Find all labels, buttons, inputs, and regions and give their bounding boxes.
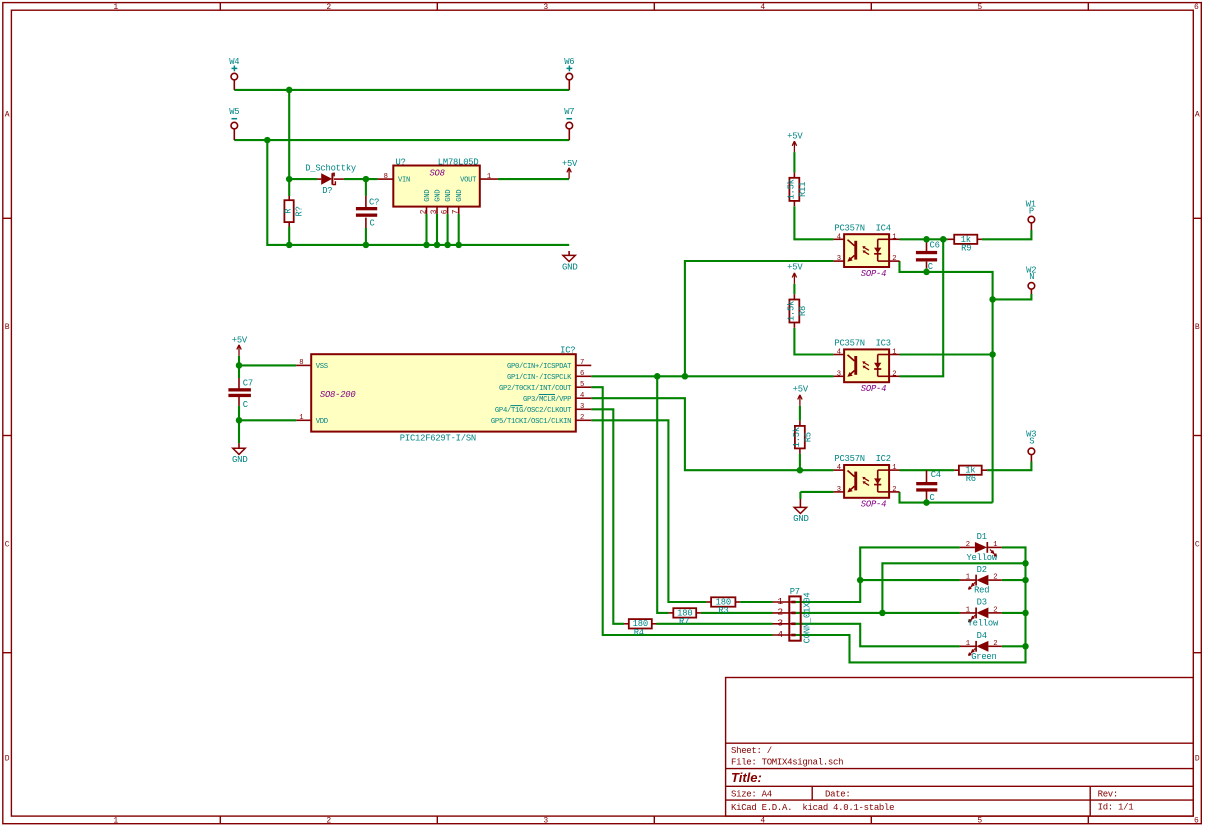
svg-text:D?: D? (322, 186, 332, 196)
svg-text:GND: GND (793, 514, 809, 524)
svg-text:5: 5 (580, 381, 584, 389)
svg-text:1: 1 (892, 233, 896, 241)
svg-text:R9: R9 (961, 243, 971, 253)
svg-text:3: 3 (837, 255, 841, 263)
svg-text:GP3/MCLR/VPP: GP3/MCLR/VPP (523, 396, 571, 404)
svg-text:GP1/CIN-/ICSPCLK: GP1/CIN-/ICSPCLK (507, 374, 572, 382)
svg-text:1: 1 (892, 464, 896, 472)
svg-text:GP4/T1G/OSC2/CLKOUT: GP4/T1G/OSC2/CLKOUT (495, 407, 572, 415)
svg-text:GND: GND (424, 190, 432, 202)
svg-text:Sheet: /: Sheet: / (731, 746, 772, 756)
svg-text:5: 5 (977, 3, 982, 12)
svg-text:1: 1 (299, 414, 303, 422)
svg-text:6: 6 (580, 370, 584, 378)
svg-text:2: 2 (777, 607, 783, 618)
svg-text:SOP-4: SOP-4 (861, 269, 886, 279)
svg-text:+5V: +5V (793, 385, 809, 395)
svg-text:PC357N: PC357N (834, 454, 864, 464)
svg-text:KiCad E.D.A. kicad 4.0.1-stab: KiCad E.D.A. kicad 4.0.1-stable (731, 803, 894, 813)
svg-text:6: 6 (441, 209, 449, 214)
svg-text:PIC12F629T-I/SN: PIC12F629T-I/SN (400, 434, 476, 444)
svg-text:2: 2 (326, 817, 331, 826)
svg-text:IC?: IC? (560, 345, 575, 355)
svg-text:6: 6 (1194, 817, 1199, 826)
svg-text:W6: W6 (564, 57, 574, 67)
svg-text:2: 2 (966, 541, 970, 549)
svg-text:R3: R3 (718, 606, 728, 616)
svg-text:Rev:: Rev: (1098, 790, 1118, 800)
svg-text:GND: GND (562, 263, 578, 273)
svg-text:SO8-200: SO8-200 (320, 390, 356, 400)
svg-text:1.5k: 1.5k (786, 179, 796, 199)
svg-text:3: 3 (837, 486, 841, 494)
svg-text:Size: A4: Size: A4 (731, 790, 772, 800)
svg-text:C: C (1195, 540, 1200, 549)
svg-text:2: 2 (892, 486, 896, 494)
svg-text:GND: GND (434, 190, 442, 202)
svg-text:D: D (5, 754, 10, 763)
svg-text:GND: GND (445, 190, 453, 202)
svg-text:Yellow: Yellow (968, 619, 999, 629)
svg-text:4: 4 (837, 233, 841, 241)
svg-text:W5: W5 (229, 107, 239, 117)
svg-text:VIN: VIN (398, 176, 410, 184)
svg-text:P: P (1029, 207, 1034, 217)
svg-text:C7: C7 (243, 379, 253, 389)
svg-text:File: TOMIX4signal.sch: File: TOMIX4signal.sch (731, 758, 843, 768)
svg-text:1: 1 (487, 173, 491, 181)
svg-text:8: 8 (384, 173, 388, 181)
svg-text:1: 1 (892, 349, 896, 357)
svg-text:3: 3 (837, 370, 841, 378)
svg-text:1: 1 (966, 640, 970, 648)
svg-text:D2: D2 (977, 565, 987, 575)
svg-text:R11: R11 (798, 182, 808, 197)
svg-text:3: 3 (580, 403, 584, 411)
svg-text:PC357N: PC357N (834, 339, 864, 349)
svg-text:2: 2 (580, 414, 584, 422)
svg-text:1.5k: 1.5k (792, 427, 802, 447)
svg-text:D4: D4 (977, 631, 987, 641)
svg-text:R5: R5 (804, 432, 814, 442)
svg-text:C6: C6 (930, 240, 940, 250)
svg-text:4: 4 (837, 464, 841, 472)
svg-text:+5V: +5V (562, 159, 578, 169)
svg-text:1: 1 (113, 817, 118, 826)
svg-text:D: D (1195, 754, 1200, 763)
svg-text:1: 1 (993, 541, 997, 549)
svg-text:GP2/T0CKI/INT/COUT: GP2/T0CKI/INT/COUT (499, 385, 572, 393)
svg-text:R6: R6 (966, 474, 976, 484)
svg-text:+5V: +5V (232, 335, 248, 345)
svg-text:Red: Red (974, 586, 989, 596)
svg-text:2: 2 (993, 640, 997, 648)
svg-text:4: 4 (837, 349, 841, 357)
svg-text:A: A (1195, 111, 1200, 120)
svg-text:GND: GND (232, 455, 248, 465)
svg-text:C: C (370, 218, 375, 228)
svg-text:N: N (1029, 272, 1034, 282)
svg-text:GP0/CIN+/ICSPDAT: GP0/CIN+/ICSPDAT (507, 363, 572, 371)
svg-text:1: 1 (113, 3, 118, 12)
svg-text:D3: D3 (977, 598, 987, 608)
svg-text:SO8: SO8 (429, 169, 444, 179)
svg-text:1: 1 (966, 574, 970, 582)
svg-text:4: 4 (580, 392, 584, 400)
svg-text:IC2: IC2 (876, 454, 891, 464)
svg-text:VOUT: VOUT (460, 176, 477, 184)
svg-text:2: 2 (420, 209, 428, 214)
svg-text:C: C (243, 400, 248, 410)
svg-text:SOP-4: SOP-4 (861, 500, 886, 510)
svg-text:D_Schottky: D_Schottky (305, 163, 356, 173)
svg-text:LM78L05D: LM78L05D (438, 157, 479, 167)
svg-text:GP5/T1CKI/OSC1/CLKIN: GP5/T1CKI/OSC1/CLKIN (491, 418, 571, 426)
svg-text:P7: P7 (790, 587, 800, 597)
svg-text:1.5k: 1.5k (786, 301, 796, 321)
svg-text:CONN_01X04: CONN_01X04 (803, 593, 813, 644)
svg-text:1: 1 (777, 596, 783, 607)
svg-text:1: 1 (966, 606, 970, 614)
svg-text:4: 4 (777, 629, 783, 640)
svg-text:+5V: +5V (787, 262, 803, 272)
svg-text:B: B (5, 323, 10, 332)
svg-text:+5V: +5V (787, 131, 803, 141)
svg-text:IC4: IC4 (876, 223, 891, 233)
svg-text:C?: C? (369, 198, 379, 208)
svg-text:Date:: Date: (825, 790, 851, 800)
svg-text:8: 8 (299, 359, 303, 367)
svg-text:2: 2 (892, 255, 896, 263)
svg-text:GND: GND (456, 190, 464, 202)
svg-text:R8: R8 (798, 306, 808, 316)
svg-text:VSS: VSS (316, 363, 328, 371)
svg-text:C4: C4 (931, 470, 941, 480)
svg-text:R?: R? (295, 206, 305, 216)
svg-text:Green: Green (971, 652, 996, 662)
svg-text:5: 5 (977, 817, 982, 826)
svg-text:Id: 1/1: Id: 1/1 (1098, 802, 1134, 812)
svg-text:B: B (1195, 323, 1200, 332)
svg-text:C: C (928, 262, 933, 272)
svg-text:D1: D1 (977, 532, 987, 542)
svg-text:IC3: IC3 (876, 339, 891, 349)
svg-text:3: 3 (543, 817, 548, 826)
svg-text:A: A (5, 111, 10, 120)
svg-text:PC357N: PC357N (834, 223, 864, 233)
svg-text:SOP-4: SOP-4 (861, 384, 886, 394)
svg-text:2: 2 (993, 574, 997, 582)
svg-text:2: 2 (993, 606, 997, 614)
svg-text:3: 3 (777, 618, 783, 629)
svg-text:3: 3 (431, 209, 439, 214)
svg-text:3: 3 (543, 3, 548, 12)
svg-text:4: 4 (760, 817, 765, 826)
svg-text:C: C (930, 493, 935, 503)
svg-text:R4: R4 (634, 628, 644, 638)
svg-text:VDD: VDD (316, 418, 328, 426)
svg-text:C: C (5, 540, 10, 549)
svg-text:S: S (1029, 436, 1034, 446)
svg-text:6: 6 (1194, 3, 1199, 12)
svg-text:Title:: Title: (731, 770, 762, 785)
svg-text:Yellow: Yellow (966, 553, 997, 563)
svg-text:R7: R7 (679, 617, 689, 627)
svg-text:7: 7 (453, 209, 461, 214)
svg-text:2: 2 (326, 3, 331, 12)
svg-text:2: 2 (892, 370, 896, 378)
svg-text:7: 7 (580, 359, 584, 367)
svg-text:W7: W7 (564, 107, 574, 117)
svg-text:U?: U? (396, 157, 406, 167)
svg-text:4: 4 (760, 3, 765, 12)
